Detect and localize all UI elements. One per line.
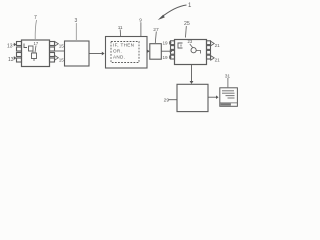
input arrow 13 (top) bbox=[7, 43, 16, 50]
pin 3 left bbox=[17, 53, 22, 57]
box 3 (signal conditioner) bbox=[65, 41, 90, 66]
svg-text:13: 13 bbox=[8, 57, 14, 63]
display text row 1 bbox=[222, 90, 234, 92]
lead line + label 9 bbox=[139, 18, 142, 37]
svg-text:23: 23 bbox=[188, 39, 193, 44]
svg-text:17: 17 bbox=[34, 41, 39, 46]
die wire bbox=[196, 51, 200, 54]
svg-text:29: 29 bbox=[164, 97, 170, 103]
display box 31 bbox=[220, 88, 238, 107]
wire/arrow box 3 to fuzzy unit 11 bbox=[89, 52, 105, 56]
die element clip bbox=[178, 43, 183, 48]
pin 5 right bbox=[207, 41, 211, 45]
pin 4 left bbox=[171, 55, 175, 59]
IC U25 (right output chip, DIP package) bbox=[171, 39, 211, 64]
svg-text:IF, THEN: IF, THEN bbox=[113, 43, 134, 48]
pin 2 left bbox=[17, 47, 22, 51]
die tick wire bbox=[33, 51, 34, 61]
pin 7 right bbox=[207, 50, 211, 54]
die element square A bbox=[29, 46, 34, 51]
svg-text:13: 13 bbox=[7, 44, 13, 50]
die element bracket bbox=[24, 44, 27, 48]
pin 5 right bbox=[50, 42, 55, 46]
svg-text:19: 19 bbox=[163, 41, 169, 46]
pin 6 right bbox=[50, 47, 55, 51]
output arrow 15 (bottom) bbox=[55, 56, 65, 63]
svg-text:1: 1 bbox=[188, 3, 192, 9]
rule memory (inner dashed box) bbox=[111, 42, 139, 63]
die element square B bbox=[32, 53, 37, 59]
wire/arrow box 29 to display 31 bbox=[208, 95, 219, 99]
svg-text:15: 15 bbox=[59, 43, 65, 48]
output arrow 15 (top) bbox=[55, 42, 65, 49]
pin 8 right bbox=[207, 55, 211, 59]
display text row 2 bbox=[222, 92, 235, 94]
wire/arrow IC 25 down to box 29 bbox=[190, 65, 194, 85]
svg-text:25: 25 bbox=[184, 21, 190, 27]
wire/arrow unit 11 to box 27 bbox=[147, 50, 150, 53]
die element circle bbox=[191, 48, 196, 53]
pin 2 left bbox=[171, 46, 175, 50]
display divider bbox=[220, 102, 237, 104]
pin 7 right bbox=[50, 53, 55, 57]
pin 6 right bbox=[207, 46, 211, 50]
display text row 3 bbox=[226, 95, 235, 97]
die lead wire bbox=[190, 44, 193, 48]
svg-text:15: 15 bbox=[59, 57, 65, 62]
svg-text:AND.: AND. bbox=[113, 55, 125, 60]
pin 1 left bbox=[171, 41, 175, 45]
lead line + label 7 (above left IC) bbox=[34, 15, 37, 39]
IC U7 (left sensor chip, DIP package) bbox=[17, 40, 55, 67]
input arrow 19 (top) bbox=[163, 41, 172, 46]
output arrow 21 (top) bbox=[211, 41, 220, 48]
box 27 (driver) bbox=[150, 44, 162, 60]
figure reference numeral 1 bbox=[158, 3, 192, 20]
lead line + label 3 (above box) bbox=[75, 18, 78, 40]
svg-text:21: 21 bbox=[215, 43, 221, 48]
box 29 (actuator) bbox=[177, 84, 208, 111]
display status band bbox=[220, 103, 231, 105]
svg-text:9: 9 bbox=[139, 18, 142, 23]
display text row 4 bbox=[228, 97, 235, 99]
pin 1 left bbox=[17, 42, 22, 46]
svg-text:OR.: OR. bbox=[113, 49, 122, 54]
pin 4 left bbox=[17, 58, 22, 62]
input arrow 13 (bottom) bbox=[8, 56, 16, 63]
pin 3 left bbox=[171, 50, 175, 54]
svg-text:19: 19 bbox=[163, 55, 169, 60]
wire/arrow box 27 to IC 25 bbox=[161, 49, 172, 53]
wire U7 to box 3 bbox=[55, 50, 65, 52]
die lead wire bbox=[35, 46, 36, 53]
fuzzy logic unit 11 (outer box) bbox=[106, 37, 148, 69]
input arrow 19 (bottom) bbox=[163, 55, 172, 60]
lead line + label 11 bbox=[118, 25, 123, 36]
pin 8 right bbox=[50, 58, 55, 62]
lead line + label 25 (above right IC) bbox=[184, 21, 190, 38]
lead line + label 27 bbox=[153, 27, 159, 43]
label 29 with dash bbox=[164, 97, 177, 103]
lead line + label 31 bbox=[225, 73, 231, 87]
output arrow 21 (bottom) bbox=[211, 56, 220, 63]
svg-text:21: 21 bbox=[215, 58, 221, 63]
